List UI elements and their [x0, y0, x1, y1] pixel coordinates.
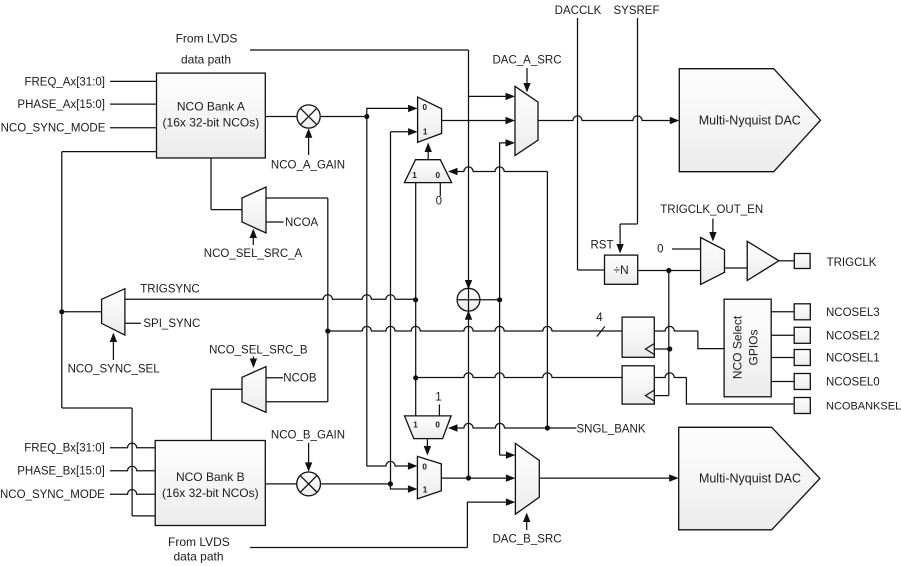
svg-text:NCOSEL1: NCOSEL1 [826, 353, 880, 365]
svg-text:1: 1 [413, 420, 418, 429]
svg-text:NCO_SEL_SRC_B: NCO_SEL_SRC_B [209, 344, 308, 356]
svg-text:PHASE_Ax[15:0]: PHASE_Ax[15:0] [17, 99, 105, 111]
svg-text:0: 0 [657, 243, 663, 255]
svg-text:data path: data path [181, 53, 231, 67]
svg-text:SNGL_BANK: SNGL_BANK [577, 423, 646, 435]
svg-text:NCOB: NCOB [283, 373, 317, 385]
svg-text:NCO_SEL_SRC_A: NCO_SEL_SRC_A [204, 248, 303, 260]
svg-text:4: 4 [596, 312, 603, 324]
svg-text:TRIGCLK: TRIGCLK [827, 257, 877, 269]
svg-text:NCO Bank B: NCO Bank B [176, 470, 245, 484]
svg-text:From LVDS: From LVDS [176, 32, 238, 46]
svg-text:NCOBANKSEL: NCOBANKSEL [826, 401, 901, 413]
svg-text:0: 0 [422, 462, 427, 471]
svg-text:÷N: ÷N [613, 263, 628, 277]
svg-text:SYSREF: SYSREF [613, 5, 659, 17]
svg-text:GPIOs: GPIOs [747, 329, 761, 365]
svg-text:(16x 32-bit NCOs): (16x 32-bit NCOs) [163, 116, 260, 130]
svg-text:(16x 32-bit NCOs): (16x 32-bit NCOs) [162, 486, 259, 500]
svg-text:Multi-Nyquist DAC: Multi-Nyquist DAC [699, 113, 801, 127]
svg-text:NCOSEL3: NCOSEL3 [826, 307, 880, 319]
svg-text:1: 1 [412, 171, 417, 180]
svg-text:SPI_SYNC: SPI_SYNC [143, 318, 200, 330]
svg-text:NCO Bank A: NCO Bank A [177, 100, 245, 114]
svg-text:DAC_A_SRC: DAC_A_SRC [492, 54, 561, 66]
svg-text:DAC_B_SRC: DAC_B_SRC [492, 534, 561, 546]
svg-text:TRIGCLK_OUT_EN: TRIGCLK_OUT_EN [660, 204, 763, 216]
svg-text:NCOA: NCOA [285, 217, 319, 229]
svg-text:NCOSEL2: NCOSEL2 [826, 330, 880, 342]
svg-text:NCO_SYNC_SEL: NCO_SYNC_SEL [68, 364, 161, 376]
svg-text:NCO_A_GAIN: NCO_A_GAIN [271, 160, 345, 172]
svg-text:data path: data path [173, 550, 223, 564]
svg-text:NCO_SYNC_MODE: NCO_SYNC_MODE [0, 489, 105, 501]
svg-text:Multi-Nyquist DAC: Multi-Nyquist DAC [699, 471, 801, 485]
svg-text:NCO_SYNC_MODE: NCO_SYNC_MODE [1, 123, 106, 135]
svg-text:1: 1 [423, 127, 428, 136]
svg-text:TRIGSYNC: TRIGSYNC [140, 283, 199, 295]
svg-text:0: 0 [435, 421, 440, 430]
svg-text:NCO Select: NCO Select [731, 315, 745, 379]
svg-text:PHASE_Bx[15:0]: PHASE_Bx[15:0] [17, 466, 105, 478]
svg-text:FREQ_Ax[31:0]: FREQ_Ax[31:0] [24, 76, 105, 88]
svg-text:0: 0 [423, 103, 428, 112]
svg-text:NCOSEL0: NCOSEL0 [826, 377, 880, 389]
svg-text:NCO_B_GAIN: NCO_B_GAIN [271, 429, 345, 441]
svg-text:1: 1 [423, 485, 428, 494]
svg-text:RST: RST [591, 239, 614, 251]
svg-text:0: 0 [436, 196, 442, 208]
svg-text:From LVDS: From LVDS [168, 535, 230, 549]
svg-text:DACCLK: DACCLK [555, 5, 602, 17]
svg-text:1: 1 [435, 392, 441, 404]
svg-text:FREQ_Bx[31:0]: FREQ_Bx[31:0] [24, 443, 105, 455]
svg-text:0: 0 [436, 171, 441, 180]
